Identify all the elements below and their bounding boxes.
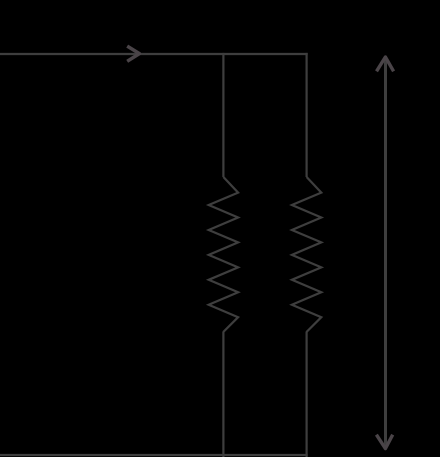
voltage arrow top arrowhead	[377, 57, 394, 71]
resistor R2 (right zigzag)	[292, 177, 321, 332]
wire right branch upper vertical	[306, 53, 308, 177]
wire top horizontal	[0, 53, 308, 55]
voltage arrow shaft	[384, 57, 387, 448]
wire bottom horizontal	[0, 454, 308, 456]
wire left branch lower vertical	[222, 332, 224, 457]
voltage arrow bottom arrowhead	[376, 435, 392, 449]
wire left branch upper vertical	[222, 53, 224, 177]
current arrowhead on top wire	[127, 46, 139, 61]
wire right branch lower vertical	[306, 332, 308, 457]
resistor R1 (left zigzag)	[209, 177, 238, 332]
